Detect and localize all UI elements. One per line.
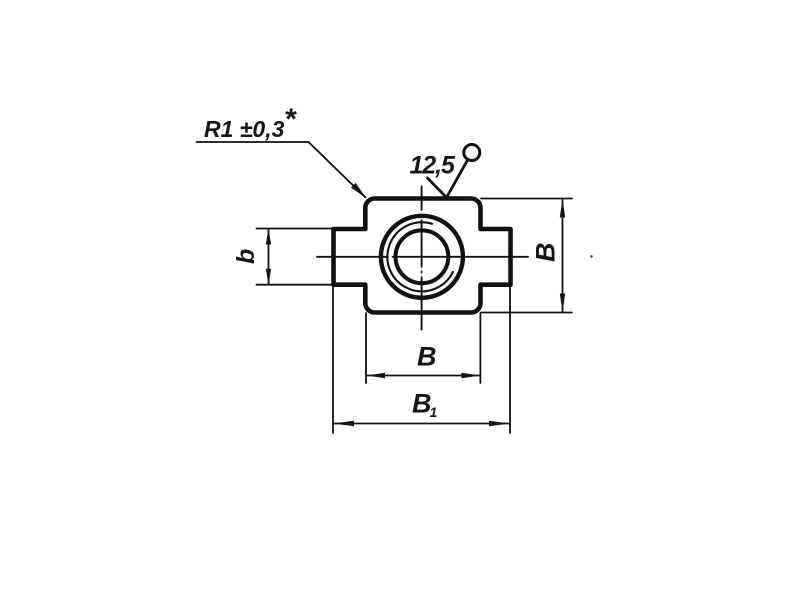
arrow b top <box>266 229 271 245</box>
leader arrowhead <box>351 183 366 198</box>
arrow B right bottom <box>560 294 565 313</box>
dimension line B right <box>562 199 564 313</box>
hole outer circle <box>381 216 463 298</box>
svg-text:12,5: 12,5 <box>410 152 456 180</box>
svg-text:1: 1 <box>430 404 438 420</box>
horizontal centerline <box>317 256 528 258</box>
thread arc (thin 3/4 circle) <box>387 222 453 291</box>
extension lines: B right side <box>481 199 572 313</box>
dimension line B bottom <box>366 375 480 377</box>
hole inner circle <box>396 230 449 283</box>
arrow B bottom left <box>366 373 385 378</box>
leader line R1 <box>197 142 366 198</box>
extension lines: B1 <box>333 285 510 433</box>
roughness mark circle <box>464 145 480 161</box>
extension lines: B bottom <box>366 313 480 383</box>
roughness mark legs <box>428 160 468 198</box>
extension lines: b dimension (left tab) <box>257 229 335 285</box>
svg-text:B: B <box>417 342 437 372</box>
nut body outline <box>334 199 511 313</box>
arrow B1 left <box>333 421 354 427</box>
svg-text:*: * <box>284 103 297 136</box>
vertical centerline <box>421 187 423 330</box>
arrow B bottom right <box>461 373 480 378</box>
scan speck <box>590 255 592 257</box>
dimension line B1 <box>333 423 510 425</box>
arrow B1 right <box>489 421 510 427</box>
arrow b bottom <box>266 269 271 285</box>
svg-text:b: b <box>232 249 260 264</box>
dimension line b <box>268 229 270 285</box>
svg-text:B: B <box>531 243 561 263</box>
svg-text:R1 ±0,3: R1 ±0,3 <box>204 116 285 142</box>
arrow B right top <box>560 199 565 218</box>
